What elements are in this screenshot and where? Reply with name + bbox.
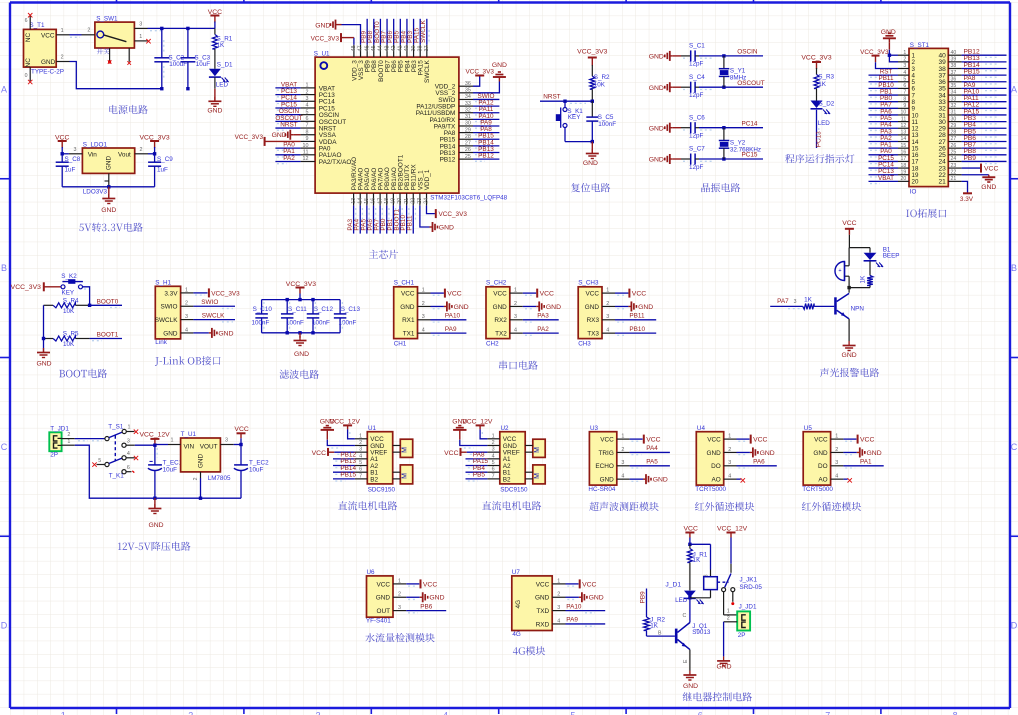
svg-text:S_C9: S_C9: [157, 156, 173, 163]
svg-text:3: 3: [316, 711, 321, 715]
svg-text:VCC_3V3: VCC_3V3: [577, 49, 607, 56]
svg-text:30: 30: [951, 116, 957, 122]
junction BOOT0: [88, 304, 91, 307]
svg-text:3: 3: [359, 447, 362, 453]
svg-text:VCC: VCC: [377, 581, 391, 588]
wire and net label PA3 (S_ST1 pin 13): [869, 128, 899, 137]
resistor S_R3 1K: [814, 74, 835, 101]
pin 4 U5 no-connect: [843, 478, 852, 482]
svg-text:46: 46: [364, 46, 370, 52]
resistor 1K (alarm LED branch): [860, 275, 873, 288]
ground GND flag at S_U1 VSSA pin 8: [272, 130, 301, 140]
svg-text:100nF: 100nF: [252, 320, 270, 327]
pin 20 S_ST1: [898, 176, 919, 186]
svg-text:1K: 1K: [217, 42, 226, 49]
wire and net label PA9 (S_ST1 pin 35): [962, 82, 1007, 91]
svg-text:VCC_12V: VCC_12V: [717, 525, 748, 532]
ground GND at U3 pin4: [630, 474, 668, 484]
wire and net label PC14 (S_ST1 pin 18): [869, 161, 899, 170]
svg-text:GND: GND: [294, 351, 309, 358]
pin 29 S_U1 PA8: [444, 127, 473, 137]
svg-text:GND: GND: [600, 477, 615, 484]
pin 10 S_U1 PA0: [301, 143, 331, 153]
wire and net label PA8 (S_U1 pin 29): [473, 126, 499, 135]
pin 26 S_U1 PB13: [440, 147, 473, 157]
resistor S_R4 10K: [44, 297, 90, 315]
wire and net label PA6 (S_U1 pin 16): [367, 206, 376, 234]
junction at S_C3 top: [186, 27, 189, 30]
wire and net label PA15 (U2 pin5): [466, 458, 489, 468]
svg-text:2: 2: [185, 301, 188, 307]
wire and net label PA2 (S_CH2 pin4): [523, 326, 559, 335]
switch S_SW1: [95, 15, 134, 54]
pin 16 S_ST1: [898, 150, 919, 160]
pin 31 S_ST1: [938, 110, 961, 120]
svg-text:GND: GND: [148, 522, 163, 529]
resistor S_R5 10K: [44, 331, 90, 349]
svg-text:2P: 2P: [738, 632, 746, 639]
svg-text:VCC: VCC: [423, 581, 437, 588]
svg-text:2: 2: [140, 147, 143, 153]
svg-text:GND: GND: [585, 304, 600, 311]
svg-text:15: 15: [364, 198, 370, 204]
wire and net label SWIO (S_U1 pin 34): [473, 93, 499, 102]
wire alarm top branch: [849, 247, 870, 249]
svg-text:2: 2: [621, 447, 624, 453]
svg-text:U3: U3: [590, 425, 599, 432]
key S_K1 KEY: [556, 101, 584, 141]
wire and net label OSCIN: [699, 49, 763, 59]
svg-text:VCC: VCC: [447, 291, 461, 298]
svg-text:26: 26: [465, 147, 471, 153]
capacitor S_C1 12pF: [681, 43, 705, 68]
svg-text:1: 1: [128, 425, 131, 431]
svg-text:100nF: 100nF: [339, 320, 357, 327]
svg-text:SWCLK: SWCLK: [202, 312, 225, 319]
svg-text:B: B: [1011, 263, 1017, 273]
svg-text:17: 17: [901, 156, 907, 162]
wire and net label PA15 (S_ST1 pin 31): [962, 108, 1007, 117]
ground GND at S_CH3 pin2: [615, 301, 653, 311]
wire GND to U1 pin2: [327, 440, 355, 448]
svg-text:PA7: PA7: [777, 298, 789, 305]
wire and net label PB15 (S_ST1 pin 37): [962, 69, 1007, 78]
capacitor S_C7 12pF: [681, 146, 705, 171]
title 超声波测距模块: [589, 502, 658, 511]
pin 3 S_CH3 RX3: [587, 314, 615, 324]
pin 5 S_U1 OSCIN: [301, 109, 340, 119]
wire S_T1 pin1 to S_SW1 pin2: [70, 35, 82, 38]
svg-text:SWCLK: SWCLK: [420, 20, 427, 43]
pin 11 S_ST1: [898, 116, 918, 126]
svg-text:NC: NC: [25, 58, 32, 68]
svg-text:GND: GND: [638, 304, 653, 311]
svg-text:4: 4: [621, 474, 624, 480]
pin 46 S_U1 PB9: [364, 45, 371, 72]
svg-text:LDO3V3: LDO3V3: [83, 189, 108, 196]
wire and net label PB12 (S_ST1 pin 40): [962, 49, 1007, 58]
svg-text:BOOT0: BOOT0: [97, 298, 119, 305]
resistor J_R2 1K: [644, 617, 666, 637]
svg-text:16: 16: [371, 198, 377, 204]
wire and net label PB14 (S_U1 pin 27): [473, 139, 499, 148]
svg-text:8: 8: [953, 711, 958, 715]
pin 4 T_S1 no-connect: [122, 451, 138, 460]
ground GND flag (S_C7): [649, 154, 681, 164]
wire and net label PA12 (S_ST1 pin 32): [962, 102, 1007, 111]
svg-text:TYPE-C-2P: TYPE-C-2P: [31, 69, 64, 76]
pin 4 U7 RXD: [536, 618, 566, 628]
svg-text:T_K1: T_K1: [109, 473, 125, 480]
svg-text:24: 24: [951, 156, 957, 162]
pin 15 S_ST1: [898, 143, 919, 153]
pin 3 U6 OUT: [377, 605, 407, 615]
svg-text:1: 1: [621, 434, 624, 440]
wire and net label PA1 (S_U1 pin 11): [275, 148, 300, 157]
pin 3 U5 DO: [818, 460, 843, 470]
pin 40 S_U1 PB4: [404, 45, 411, 72]
pin 32 S_ST1: [938, 103, 961, 113]
svg-text:PA1: PA1: [860, 459, 872, 466]
svg-text:43: 43: [384, 46, 390, 52]
pin 0 S_T1 bottom no-connect: [25, 67, 33, 84]
pin 2 U6 GND: [376, 592, 407, 602]
svg-text:100nF: 100nF: [286, 320, 304, 327]
junction NRST at key branch: [563, 100, 566, 103]
svg-text:4: 4: [557, 618, 560, 624]
svg-text:PB12: PB12: [440, 157, 456, 164]
junction relay coil return: [688, 596, 691, 599]
svg-text:2: 2: [606, 301, 609, 307]
svg-text:VCC: VCC: [984, 165, 998, 172]
svg-text:10: 10: [303, 143, 309, 149]
svg-text:PA2: PA2: [537, 326, 549, 333]
svg-text:7: 7: [825, 711, 830, 715]
wire and net label PB7 (S_ST1 pin 26): [962, 142, 1007, 151]
svg-text:GND: GND: [106, 156, 113, 171]
svg-text:ECHO: ECHO: [595, 463, 613, 470]
capacitor S_C11 100nF: [281, 300, 307, 333]
svg-text:TX1: TX1: [403, 331, 415, 338]
svg-text:26: 26: [951, 143, 957, 149]
ground GND (LDO): [101, 187, 116, 214]
motor M1 connector (U1): [393, 439, 413, 457]
ground GND at S_CH1 pin2: [431, 301, 469, 311]
svg-text:TCRT5000: TCRT5000: [802, 486, 833, 493]
capacitor S_C2 100uF: [154, 28, 187, 88]
svg-text:10K: 10K: [63, 341, 75, 348]
pin 3 T_S1: [122, 438, 135, 447]
svg-text:+: +: [838, 268, 841, 274]
junction PC14 at crystal: [722, 126, 725, 129]
wire and net label PA3 (S_U1 pin 13): [347, 206, 356, 234]
junction filter bottom at C11: [286, 331, 289, 334]
pin 27 S_U1 PB14: [440, 141, 473, 151]
pin 41 S_U1 PB5: [398, 45, 405, 72]
svg-text:B2: B2: [370, 476, 378, 483]
pin 1 T_S1 no-connect: [122, 425, 138, 434]
svg-text:39: 39: [951, 57, 957, 63]
svg-text:KEY: KEY: [568, 114, 581, 121]
pin 3 U7 TXD: [536, 605, 565, 615]
module U6 YF-S401 body: [366, 569, 393, 624]
junction buck input node: [153, 444, 156, 447]
svg-text:PA4: PA4: [646, 445, 658, 452]
svg-text:1: 1: [359, 433, 362, 439]
svg-text:M: M: [402, 447, 409, 453]
wire relay top branch: [690, 544, 711, 576]
svg-text:S_T1: S_T1: [29, 22, 45, 29]
capacitor S_C5 100nF: [586, 101, 616, 141]
wire emitter J_Q1: [683, 650, 690, 671]
svg-text:GND: GND: [842, 352, 857, 359]
module U4 TCRT5000 body: [695, 425, 726, 493]
svg-text:VCC: VCC: [646, 437, 660, 444]
wire and net label PA7 (S_U1 pin 17): [374, 206, 383, 234]
svg-text:4: 4: [443, 711, 448, 715]
wire and net label PB15 (U1 pin7): [333, 472, 356, 482]
svg-text:VCC_3V3: VCC_3V3: [11, 284, 41, 291]
buzzer B1 BEEP: [835, 247, 900, 288]
ground GND flag top of S_ST1: [881, 29, 896, 50]
pin 40 S_ST1: [938, 50, 961, 60]
svg-text:VCC: VCC: [632, 291, 646, 298]
svg-text:LED: LED: [675, 597, 688, 604]
ground GND (power circuit): [207, 89, 222, 115]
svg-text:PB6: PB6: [420, 603, 433, 610]
wire and net label PA2 (S_U1 pin 12): [275, 155, 300, 164]
svg-text:41: 41: [398, 46, 404, 52]
svg-text:U6: U6: [367, 569, 376, 576]
svg-text:1K: 1K: [804, 296, 813, 303]
pin 18 S_ST1: [898, 163, 919, 173]
svg-text:GND: GND: [315, 22, 330, 29]
svg-text:8: 8: [903, 96, 906, 102]
svg-text:SDC9150: SDC9150: [368, 487, 396, 494]
pin 43 S_U1 PB7: [384, 45, 391, 72]
wire and net label NRST (reset node): [540, 94, 592, 104]
svg-text:C: C: [1011, 442, 1018, 452]
svg-text:VCC: VCC: [707, 437, 721, 444]
svg-text:S_CH1: S_CH1: [394, 280, 415, 287]
svg-text:S_C11: S_C11: [288, 306, 307, 313]
pin 28 S_U1 PB15: [440, 134, 473, 144]
svg-text:SDC9150: SDC9150: [500, 487, 528, 494]
wire and net label PC15: [699, 152, 763, 162]
svg-text:U2: U2: [501, 425, 510, 432]
wire and net label PA1 (U5 pin3): [843, 459, 883, 469]
pin 15 S_U1 PA5/AO: [364, 168, 371, 206]
connector S_T1 TYPE-C-2P: [24, 22, 64, 76]
svg-text:AO: AO: [818, 477, 827, 484]
svg-text:VCC: VCC: [753, 437, 767, 444]
power VCC (alarm): [842, 220, 856, 248]
regulator S_LDO1 LDO3V3: [82, 142, 134, 196]
wire and net label PB4 (U2 pin6): [466, 465, 488, 475]
svg-text:7: 7: [492, 473, 495, 479]
svg-text:12pF: 12pF: [689, 164, 704, 171]
wire SW1 pin3 to VCC rail: [148, 28, 215, 30]
module U7 4G body: [512, 569, 552, 638]
power VCC at S_CH3 pin1: [615, 289, 646, 298]
pin 4 U5 AO: [818, 474, 843, 484]
power VCC_3V3 (indicator): [801, 55, 831, 75]
pin 2 S_CH1 GND: [400, 301, 430, 311]
svg-text:BOOT1: BOOT1: [97, 332, 119, 339]
svg-text:RXD: RXD: [536, 621, 550, 628]
svg-text:5: 5: [903, 76, 906, 82]
switch T_K1 lower pole: [92, 458, 124, 480]
svg-text:PB11: PB11: [629, 313, 645, 320]
svg-text:VCC: VCC: [234, 426, 248, 433]
wire and net label PB3 (S_U1 pin 39): [407, 19, 416, 45]
IC U2 SDC9150 body: [500, 425, 528, 493]
svg-text:GND: GND: [649, 85, 664, 92]
pin 8 S_ST1: [898, 96, 916, 106]
pin 4 S_U1 PC15: [301, 103, 336, 113]
junction filter top at VCC: [298, 298, 301, 301]
pin 25 S_ST1: [938, 150, 961, 160]
ground GND at U6 pin2: [406, 592, 444, 602]
wire and net label PB4 (S_ST1 pin 29): [962, 122, 1007, 131]
svg-text:31: 31: [951, 110, 957, 116]
wire alarm bottom branch: [849, 287, 870, 289]
wire T_JD1 pin2 to switch: [75, 439, 105, 441]
power VCC_3V3 at S_H1 pin1: [193, 288, 240, 297]
wire S_K2 to BOOT0 node: [83, 287, 90, 306]
junction filter bottom gnd: [298, 331, 301, 334]
svg-text:4: 4: [606, 328, 609, 334]
pin 38 S_ST1: [938, 63, 961, 73]
ground GND flag (U2): [452, 419, 467, 440]
svg-text:12pF: 12pF: [689, 133, 704, 140]
svg-text:1: 1: [728, 434, 731, 440]
pin 29 S_ST1: [938, 123, 961, 133]
svg-text:SRD-05: SRD-05: [740, 584, 763, 591]
svg-text:S_LDO1: S_LDO1: [83, 142, 108, 149]
svg-text:VCC_3V3: VCC_3V3: [311, 35, 340, 42]
wire and net label PB12 (U1 pin4): [333, 452, 356, 462]
svg-text:38: 38: [951, 63, 957, 69]
pin 1 U4 VCC: [707, 434, 736, 444]
wire and net label PA7 (S_ST1 pin 9): [869, 102, 899, 111]
connector T_JD1 2P: [49, 425, 69, 458]
svg-text:VCC_3V3: VCC_3V3: [235, 134, 264, 141]
wire and net label PA5 (S_ST1 pin 11): [869, 115, 899, 124]
pin 45 S_U1 PB8: [371, 45, 378, 72]
pin 33 S_U1 PA12/USBDP: [416, 101, 473, 111]
svg-text:20: 20: [901, 176, 907, 182]
svg-text:9: 9: [903, 103, 906, 109]
wire and net label PB0 (S_U1 pin 18): [380, 206, 389, 234]
svg-text:30: 30: [465, 121, 471, 127]
wire and net label OSCIN (S_U1 pin 5): [275, 108, 300, 117]
svg-text:12: 12: [303, 156, 309, 162]
svg-text:T_S1: T_S1: [108, 423, 124, 430]
junction at S_C2 top: [160, 27, 163, 30]
wire and net label PA10 (U7 pin3): [566, 603, 606, 613]
svg-text:5: 5: [306, 109, 309, 115]
pin 2 T_JD1: [62, 432, 75, 439]
power VCC flag to U2 VREF: [444, 448, 487, 457]
capacitor S_C10 100nF: [252, 300, 273, 333]
junction bottom rail at S_C3: [186, 87, 189, 90]
svg-text:IO: IO: [910, 188, 917, 195]
wire S_T1 GND to bottom rail: [70, 62, 162, 89]
svg-text:1K: 1K: [860, 275, 867, 284]
wire and net label PB6 (S_ST1 pin 27): [962, 135, 1007, 144]
wire and net label PB5 (U2 pin7): [466, 472, 488, 482]
pin 37 S_ST1: [938, 70, 961, 80]
capacitor T_EC2 10uF electrolytic: [234, 445, 269, 499]
junction buck rail at T_EC1: [153, 497, 156, 500]
svg-text:S_R5: S_R5: [63, 331, 79, 338]
svg-text:PA10: PA10: [445, 313, 461, 320]
power VCC (relay): [684, 525, 698, 544]
wire S_U1 VSS_3 to GND flag: [342, 25, 361, 45]
wire T_S1 pin3 to VCC_12V node: [135, 444, 155, 446]
svg-text:3: 3: [185, 314, 188, 320]
svg-text:21: 21: [404, 198, 410, 204]
svg-text:8: 8: [306, 129, 309, 135]
wire and net label OSCOUT (S_U1 pin 6): [275, 115, 302, 124]
svg-text:J_JK1: J_JK1: [740, 577, 758, 584]
pin 1 T_U1 VIN: [155, 438, 181, 445]
svg-text:GND: GND: [653, 477, 668, 484]
pin 2 S_SW1: [82, 28, 95, 35]
svg-text:3: 3: [139, 21, 142, 27]
wire and net label PB15 (S_U1 pin 28): [473, 133, 499, 142]
ground GND at S_H1 pin4: [193, 328, 233, 338]
svg-text:GND: GND: [706, 450, 721, 457]
svg-text:3: 3: [835, 460, 838, 466]
svg-text:1uF: 1uF: [157, 167, 168, 174]
svg-text:3: 3: [794, 299, 797, 305]
wire and net label PA7 (alarm base): [770, 298, 803, 309]
svg-text:PB9: PB9: [639, 591, 646, 604]
pin 4 U4 AO: [711, 474, 736, 484]
header S_CH2 body: [486, 280, 510, 348]
svg-text:40: 40: [404, 46, 410, 52]
svg-text:18: 18: [384, 198, 390, 204]
pin 4 S_CH1 TX1: [403, 328, 431, 338]
pin 4 U1 A1: [355, 453, 379, 463]
svg-text:YF-S401: YF-S401: [366, 618, 391, 625]
pin 24 S_U1 VDD_1: [424, 169, 431, 205]
pin 6 T_S1 no-connect: [122, 465, 134, 474]
pin 36 S_ST1: [938, 76, 961, 86]
wire and net label PB8 (S_ST1 pin 25): [962, 148, 1007, 157]
wire and net label PB12 (S_U1 pin 25): [473, 153, 499, 162]
svg-text:45: 45: [371, 46, 377, 52]
pin 18 S_U1 PB0/AO: [384, 167, 391, 206]
svg-text:STM32F103C8T6_LQFP48: STM32F103C8T6_LQFP48: [430, 195, 507, 202]
wire and net label PA3 (S_CH2 pin3): [523, 313, 559, 322]
svg-text:3: 3: [621, 460, 624, 466]
svg-text:3: 3: [422, 314, 425, 320]
svg-text:0: 0: [25, 73, 28, 79]
title 直流电机电路 (U1): [338, 501, 397, 510]
svg-text:NRST: NRST: [280, 121, 297, 128]
wire VCC to LDO Vin and S_C8: [61, 152, 69, 162]
svg-text:37: 37: [424, 46, 430, 52]
svg-text:S_C8: S_C8: [65, 156, 81, 163]
svg-text:3: 3: [306, 96, 309, 102]
wire and net label PB6 (U6 pin3): [406, 603, 446, 613]
pin 3 U4 DO: [711, 460, 736, 470]
svg-text:PA3: PA3: [537, 313, 549, 320]
svg-text:27: 27: [465, 141, 471, 147]
